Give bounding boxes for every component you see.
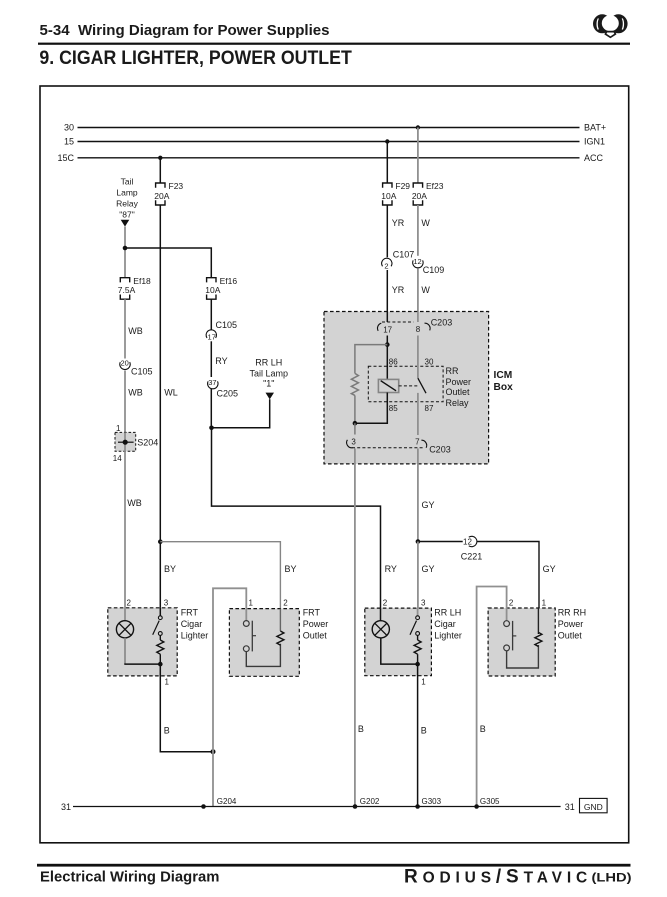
- wire C221 to RR RH power outlet pin1: [477, 542, 540, 635]
- footer rule: [37, 864, 631, 867]
- svg-text:"87": "87": [119, 209, 135, 219]
- resistor FRT cigar: [159, 635, 161, 640]
- svg-text:Ef18: Ef18: [133, 276, 151, 286]
- svg-text:C205: C205: [217, 388, 239, 398]
- svg-text:C105: C105: [131, 367, 153, 377]
- wire BAT+ to Ef23: [417, 128, 419, 184]
- svg-text:8: 8: [416, 325, 421, 334]
- FRT cigar lighter box: [108, 608, 177, 676]
- node WB/Ef16 junction: [123, 246, 128, 251]
- resistor RR LH cigar: [417, 635, 419, 640]
- svg-text:31: 31: [565, 802, 575, 812]
- node C221 junction: [416, 539, 421, 544]
- svg-text:2: 2: [283, 599, 288, 608]
- wire junction to Ef16: [125, 248, 211, 278]
- node BY junction on WL line: [158, 539, 163, 544]
- svg-text:12: 12: [413, 257, 421, 266]
- svg-text:Tail: Tail: [121, 177, 134, 187]
- diagram frame: [40, 86, 629, 843]
- wire BY to FRT power outlet pin2: [160, 542, 280, 631]
- svg-text:10A: 10A: [205, 285, 220, 295]
- wire IGN1 to F29: [386, 142, 388, 184]
- svg-text:WB: WB: [127, 498, 142, 508]
- svg-text:WB: WB: [128, 326, 143, 336]
- svg-text:20A: 20A: [154, 191, 169, 201]
- svg-text:ACC: ACC: [584, 153, 604, 163]
- svg-text:ICM: ICM: [494, 370, 513, 381]
- bus 15 (IGN1): [78, 141, 580, 143]
- wire pin17 to coil junction: [386, 336, 388, 380]
- RR RH power outlet box: [488, 608, 555, 676]
- svg-text:7: 7: [415, 437, 420, 446]
- wire pin7 through box bottom down to C221 junction: [417, 449, 419, 542]
- resistor RR RH power outlet: [535, 632, 542, 646]
- svg-text:Outlet: Outlet: [446, 387, 471, 397]
- wire C109 to ICM pin8: [417, 269, 419, 323]
- lamp RR LH cigar: [380, 608, 382, 621]
- svg-text:Tail Lamp: Tail Lamp: [250, 369, 289, 379]
- relay inner dashed box: [368, 366, 443, 402]
- node BAT+ junction: [416, 125, 420, 129]
- contacts RR RH power outlet: [504, 621, 510, 627]
- wire lower contact to resistor bottom: [507, 645, 539, 668]
- tail lamp relay arrow: [121, 220, 130, 227]
- svg-text:C109: C109: [423, 265, 445, 275]
- svg-text:1: 1: [116, 424, 121, 433]
- connector C105 pin20: [120, 359, 130, 370]
- node FRT cigar pin1: [158, 662, 163, 667]
- svg-text:YR: YR: [392, 285, 405, 295]
- wire resistor to lower junction: [354, 395, 356, 423]
- svg-text:7.5A: 7.5A: [118, 285, 136, 295]
- svg-text:Power: Power: [558, 619, 584, 629]
- svg-text:Outlet: Outlet: [558, 630, 583, 640]
- contacts FRT power outlet: [243, 621, 249, 627]
- resistor FRT power outlet: [277, 631, 284, 645]
- wire RY down then right to RR LH cigar: [212, 428, 381, 621]
- wire C105 to S204: [124, 371, 126, 433]
- bus 31: [73, 806, 561, 808]
- svg-text:Power: Power: [303, 619, 329, 629]
- wire 15C to fuse F23: [159, 158, 161, 183]
- svg-text:30: 30: [64, 123, 74, 133]
- wire WL junction to FRT cigar pin3: [159, 542, 161, 617]
- svg-text:Power: Power: [446, 377, 472, 387]
- svg-text:30: 30: [425, 358, 434, 367]
- wire pin3 through box bottom down: [354, 449, 356, 807]
- svg-text:3: 3: [421, 599, 426, 608]
- connector C221 pin12: [463, 536, 477, 546]
- svg-text:C203: C203: [429, 445, 451, 455]
- svg-text:Electrical Wiring Diagram: Electrical Wiring Diagram: [40, 868, 219, 885]
- wire C107 to ICM pin17: [386, 270, 388, 322]
- header rule: [38, 43, 630, 45]
- fuse F23 20A: [156, 183, 165, 205]
- svg-text:12: 12: [463, 538, 472, 547]
- svg-text:Box: Box: [494, 382, 514, 393]
- lamp FRT cigar: [124, 608, 126, 621]
- svg-text:G204: G204: [217, 797, 237, 806]
- svg-text:RY: RY: [215, 356, 227, 366]
- node IGN1 junction: [385, 139, 389, 143]
- node coil/resistor junction: [385, 342, 390, 347]
- wire C105-17 to C205: [210, 341, 212, 377]
- relay switch: [417, 336, 419, 379]
- svg-text:Lighter: Lighter: [181, 630, 209, 640]
- wire junction to resistor branch: [355, 345, 387, 374]
- svg-text:BY: BY: [285, 564, 297, 574]
- svg-text:RR: RR: [446, 366, 459, 376]
- svg-text:17: 17: [208, 333, 216, 342]
- svg-text:Lamp: Lamp: [116, 187, 138, 197]
- svg-text:20A: 20A: [412, 191, 427, 201]
- resistor ICM: [351, 373, 358, 395]
- svg-text:B: B: [164, 725, 170, 735]
- svg-text:BAT+: BAT+: [584, 123, 606, 133]
- node tail lamp branch: [209, 426, 214, 431]
- wire S204 to FRT cigar pin2: [124, 451, 126, 621]
- svg-text:(LHD): (LHD): [592, 873, 632, 885]
- svg-text:Ef23: Ef23: [426, 181, 444, 191]
- fuse Ef23 20A: [413, 183, 422, 205]
- wire pin2 loop up-left-down to G305: [477, 587, 507, 807]
- svg-text:B: B: [421, 725, 427, 735]
- svg-text:GY: GY: [543, 564, 556, 574]
- wire pin1 down to G303: [417, 664, 419, 806]
- wire resistor top to pin1: [537, 632, 539, 634]
- svg-text:C105: C105: [216, 320, 238, 330]
- svg-text:RR LH: RR LH: [255, 358, 282, 368]
- svg-text:3: 3: [351, 437, 356, 446]
- svg-text:15C: 15C: [57, 153, 74, 163]
- svg-text:FRT: FRT: [181, 608, 199, 618]
- svg-text:Relay: Relay: [116, 198, 138, 208]
- svg-text:2: 2: [509, 599, 514, 608]
- svg-text:1: 1: [542, 599, 547, 608]
- svg-text:2: 2: [384, 261, 388, 270]
- svg-text:RY: RY: [385, 564, 397, 574]
- svg-text:IGN1: IGN1: [584, 137, 605, 147]
- svg-text:GY: GY: [422, 500, 435, 510]
- svg-text:B: B: [480, 724, 486, 734]
- FRT power outlet box: [229, 609, 299, 677]
- svg-text:20: 20: [120, 359, 128, 368]
- wire pin1 into box to resistor: [537, 608, 539, 632]
- ICM box outline: [324, 312, 489, 464]
- fuse Ef16 10A: [207, 278, 216, 300]
- wire junction to C221: [418, 541, 463, 543]
- relay coil-switch dashed link: [399, 385, 418, 387]
- svg-text:S204: S204: [137, 438, 158, 448]
- wire lower junction to pin3: [354, 423, 356, 434]
- svg-text:9. CIGAR LIGHTER, POWER OUTLET: 9. CIGAR LIGHTER, POWER OUTLET: [39, 47, 351, 69]
- wire Ef23 to C109: [417, 205, 419, 256]
- fuse Ef18 7.5A: [120, 278, 129, 300]
- svg-text:G305: G305: [480, 797, 500, 806]
- svg-text:3: 3: [164, 599, 169, 608]
- svg-text:14: 14: [113, 454, 122, 463]
- svg-text:FRT: FRT: [303, 608, 321, 618]
- svg-text:1: 1: [249, 599, 254, 608]
- svg-text:RR LH: RR LH: [434, 608, 461, 618]
- svg-text:2: 2: [127, 599, 132, 608]
- connector C205 pin37: [208, 378, 218, 389]
- relay coil: [378, 379, 398, 392]
- svg-text:Lighter: Lighter: [434, 630, 462, 640]
- svg-text:F29: F29: [395, 181, 410, 191]
- wire pin2 into box to resistor: [279, 609, 281, 631]
- SsangYong logo: [593, 12, 628, 38]
- wire Ef16 to C105 pin17: [210, 299, 212, 330]
- svg-text:WL: WL: [164, 387, 178, 397]
- bus 30 (BAT+): [78, 127, 580, 129]
- fuse F29 10A: [383, 183, 392, 205]
- wire GY down to RR LH cigar pin3: [417, 542, 419, 618]
- wire lower contact to resistor bottom: [246, 644, 280, 667]
- wire branch to RR LH tail lamp: [212, 399, 270, 428]
- svg-text:17: 17: [383, 326, 392, 335]
- RR LH tail lamp arrow: [266, 393, 275, 400]
- wire pin1 down and right to G204 line: [160, 664, 213, 752]
- wire F29 to C107: [386, 205, 388, 257]
- svg-text:10A: 10A: [381, 191, 396, 201]
- node RR LH cigar pin1: [415, 662, 420, 667]
- svg-text:W: W: [421, 285, 430, 295]
- switch FRT cigar: [159, 608, 161, 616]
- wire lamp to bottom node: [124, 638, 126, 664]
- svg-text:B: B: [358, 724, 364, 734]
- node 15C junction: [158, 156, 162, 160]
- svg-text:RODIUS/STAVIC: RODIUS/STAVIC: [404, 867, 592, 888]
- svg-text:GND: GND: [584, 802, 603, 812]
- wire C205 to tail-lamp junction: [210, 389, 212, 428]
- wire Ef18 to C105: [124, 299, 126, 358]
- svg-text:31: 31: [61, 802, 71, 812]
- wire F23 down (WL) to BY junction: [159, 205, 161, 542]
- wire lamp to bottom node: [381, 638, 418, 664]
- svg-text:YR: YR: [392, 218, 405, 228]
- svg-text:1: 1: [165, 677, 170, 686]
- wire pin1 loop up-left-down to G204: [213, 588, 246, 806]
- bus 15C (ACC): [78, 157, 580, 159]
- svg-text:BY: BY: [164, 564, 176, 574]
- svg-text:Cigar: Cigar: [181, 619, 203, 629]
- wire WB relay arrow to junction: [124, 227, 126, 278]
- svg-text:5-34 Wiring Diagram for Power: 5-34 Wiring Diagram for Power Supplies: [40, 23, 330, 39]
- svg-text:2: 2: [383, 599, 388, 608]
- svg-text:87: 87: [425, 404, 434, 413]
- svg-text:15: 15: [64, 137, 74, 147]
- svg-text:WB: WB: [128, 387, 143, 397]
- svg-text:W: W: [421, 218, 430, 228]
- wire coil bottom to lower junction: [355, 393, 387, 424]
- svg-text:Outlet: Outlet: [303, 630, 328, 640]
- svg-text:Cigar: Cigar: [434, 619, 456, 629]
- node bus dots: [201, 804, 206, 809]
- svg-text:Ef16: Ef16: [220, 276, 238, 286]
- connector C203 top: [386, 312, 388, 323]
- connector C109 pin12: [413, 257, 423, 268]
- svg-text:GY: GY: [422, 564, 435, 574]
- svg-text:C221: C221: [461, 552, 483, 562]
- svg-text:"1": "1": [263, 379, 274, 389]
- svg-text:G303: G303: [422, 797, 442, 806]
- svg-text:86: 86: [389, 358, 398, 367]
- svg-text:RR RH: RR RH: [558, 608, 587, 618]
- svg-text:F23: F23: [169, 181, 184, 191]
- switch RR LH cigar: [417, 608, 419, 616]
- GND box: [580, 798, 608, 812]
- svg-text:37: 37: [208, 378, 216, 387]
- svg-text:85: 85: [389, 404, 398, 413]
- svg-text:C203: C203: [431, 317, 453, 327]
- connector C203 bottom: [352, 447, 424, 449]
- svg-text:G202: G202: [360, 797, 380, 806]
- svg-text:1: 1: [421, 677, 426, 686]
- svg-text:C107: C107: [393, 250, 415, 260]
- svg-text:Relay: Relay: [446, 398, 470, 408]
- RR LH cigar lighter box: [365, 608, 432, 676]
